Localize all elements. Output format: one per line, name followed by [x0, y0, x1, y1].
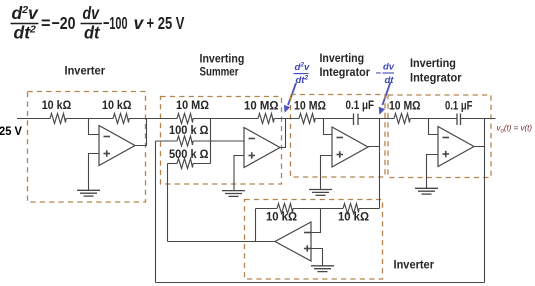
- wire: vo node down right side: [484, 147, 486, 283]
- op-amp U4 (integrator 2): [438, 127, 474, 167]
- equation d2v/dt2 = -20 dv/dt - 100 v + 25 V: [11, 3, 185, 43]
- resistor R10 10 kOhm (feedback inverter input): [343, 204, 359, 214]
- wire: integrator2 input resistor to C2: [410, 118, 457, 120]
- wire: U5 output row: [168, 241, 276, 243]
- wire: riser to 100k summer input: [155, 141, 157, 283]
- svg-text:10 MΩ: 10 MΩ: [389, 101, 421, 113]
- wire: integrator1 junction drop to U3 inverting input: [324, 119, 333, 135]
- dashed box: Inverter stage: [28, 92, 146, 203]
- dashed box: Inverting Integrator 2 stage: [388, 95, 491, 178]
- arrow to -dv/dt node: [379, 82, 391, 115]
- svg-text:10 kΩ: 10 kΩ: [338, 212, 369, 224]
- wire: U4 noninverting input to ground: [427, 155, 439, 189]
- op-amp U3 (integrator 1): [332, 127, 368, 167]
- resistor R5 500 kOhm (summer input from dv/dt): [177, 159, 193, 169]
- wire: 25V source to R1: [17, 118, 50, 120]
- wire: C2 to output: [461, 118, 496, 120]
- ground (U4): [415, 188, 438, 194]
- svg-text:10 MΩ: 10 MΩ: [244, 101, 279, 113]
- svg-text:v: v: [134, 13, 145, 33]
- wire: 500k row to summer bus: [193, 163, 211, 165]
- svg-text:Inverting: Inverting: [200, 52, 245, 66]
- dashed box: Inverting Summer stage: [161, 97, 282, 185]
- svg-text:Integrator: Integrator: [410, 71, 462, 85]
- svg-text:10 kΩ: 10 kΩ: [102, 100, 132, 112]
- resistor R9 10 kOhm (feedback inverter feedback): [277, 204, 293, 214]
- op-amp U1 (inverter 1): [99, 126, 135, 166]
- dashed box: Inverter feedback stage: [245, 200, 383, 280]
- wire: summer inverting bus drop: [210, 119, 212, 164]
- wire: feedback inverter top row middle: [293, 208, 343, 210]
- resistor R2 10 kOhm (inverter1 feedback): [113, 114, 129, 124]
- net label -dv/dt (blue): [376, 62, 395, 86]
- resistor R7 10 MOhm (integrator1 input): [299, 114, 315, 124]
- wire: integrator2 junction drop to U4 inverting input: [429, 119, 439, 135]
- wire: U4 output riser to vo node: [474, 119, 485, 147]
- svg-text:10 kΩ: 10 kΩ: [266, 212, 297, 224]
- wire: 100k row left of resistor: [156, 140, 178, 142]
- label: Inverting Integrator (second): [410, 56, 462, 85]
- wire: bottom feedback run: [156, 282, 485, 284]
- svg-text:+ 25 V: + 25 V: [147, 13, 185, 33]
- wire: -dv/dt node down to feedback inverter: [379, 147, 381, 209]
- svg-text:−20: −20: [52, 13, 76, 33]
- wire: U2 output riser to d2v/dt2 node: [280, 119, 286, 148]
- svg-text:Inverting: Inverting: [410, 56, 456, 70]
- ground (U3): [309, 190, 332, 196]
- wire: C1 to integrator2 input resistor: [359, 118, 395, 120]
- wire: U2 noninverting input to ground: [234, 156, 244, 191]
- svg-text:dt: dt: [84, 23, 101, 43]
- wire: R1 to R2 through node A: [66, 118, 113, 120]
- wire: U3 noninverting input to ground: [321, 156, 333, 190]
- wire: 100k row to U2 inverting input: [193, 140, 244, 142]
- dashed box: Inverting Integrator 1 stage: [291, 95, 386, 178]
- label: Inverting Summer: [200, 52, 245, 79]
- ground (U2): [222, 191, 245, 197]
- ground (U1): [77, 190, 100, 196]
- ground (U5): [311, 266, 334, 272]
- svg-text:−: −: [376, 68, 382, 79]
- wire: feedback corner down to U5 output row: [255, 209, 257, 242]
- wire: U1 output riser: [135, 119, 147, 146]
- svg-text:=: =: [41, 13, 51, 33]
- svg-text:0.1 μF: 0.1 μF: [346, 100, 375, 112]
- wire: U5 inverting input riser: [311, 209, 321, 233]
- svg-text:10 MΩ: 10 MΩ: [176, 100, 209, 112]
- node A drop to U1 inverting input: [89, 119, 100, 135]
- wire: U3 output riser to -dv/dt node: [368, 119, 380, 147]
- capacitor C2 0.1 uF (integrator2 feedback): [457, 114, 461, 126]
- resistor R1 10 kOhm (inverter1 input): [50, 114, 66, 124]
- svg-text:Inverter: Inverter: [65, 64, 106, 78]
- svg-text:dv: dv: [383, 62, 395, 73]
- wire: feedback inverter top row left: [256, 208, 278, 210]
- svg-text:10 MΩ: 10 MΩ: [294, 101, 326, 113]
- svg-text:Summer: Summer: [200, 65, 239, 79]
- svg-text:Inverting: Inverting: [320, 51, 365, 65]
- wire: riser from U5 output to 500k summer input: [167, 164, 169, 242]
- svg-text:500 k Ω: 500 k Ω: [169, 149, 209, 161]
- resistor R8 10 MOhm (integrator2 input): [394, 114, 410, 124]
- arrow to d2v/dt2 node: [284, 83, 296, 113]
- svg-text:dv: dv: [83, 3, 101, 23]
- wire: integrator1 input resistor to C1: [315, 118, 353, 120]
- wire: feedback inverter top row right: [359, 208, 380, 210]
- svg-text:25 V: 25 V: [0, 126, 22, 138]
- svg-text:10 kΩ: 10 kΩ: [42, 100, 71, 112]
- wire: 500k row left of resistor: [168, 163, 178, 165]
- wire: U1 noninverting input to ground: [89, 154, 100, 191]
- resistor R3 10 MOhm (summer input from 25V): [177, 114, 193, 124]
- wire: summer input resistor to feedback resistor: [193, 118, 258, 120]
- op-amp U5 (feedback inverter, points left): [275, 222, 311, 261]
- wire: R2 to summer input resistor: [129, 118, 177, 120]
- svg-text:100 k Ω: 100 k Ω: [169, 125, 209, 137]
- svg-text:Inverter: Inverter: [394, 258, 435, 272]
- svg-text:Integrator: Integrator: [320, 65, 371, 79]
- svg-text:0.1 μF: 0.1 μF: [445, 101, 473, 113]
- label: Inverting Integrator (first): [320, 51, 371, 79]
- net label d2v/dt2 (blue): [294, 62, 310, 86]
- svg-text:−100: −100: [103, 13, 128, 33]
- resistor R4 100 kOhm (summer input from v): [177, 136, 193, 146]
- resistor R6 10 MOhm (summer feedback): [258, 114, 274, 124]
- op-amp U2 (summer): [244, 128, 280, 168]
- wire: U5 noninverting input to ground: [311, 249, 323, 266]
- wire: summer feedback resistor to integrator1 input: [274, 118, 299, 120]
- capacitor C1 0.1 uF (integrator1 feedback): [354, 114, 359, 126]
